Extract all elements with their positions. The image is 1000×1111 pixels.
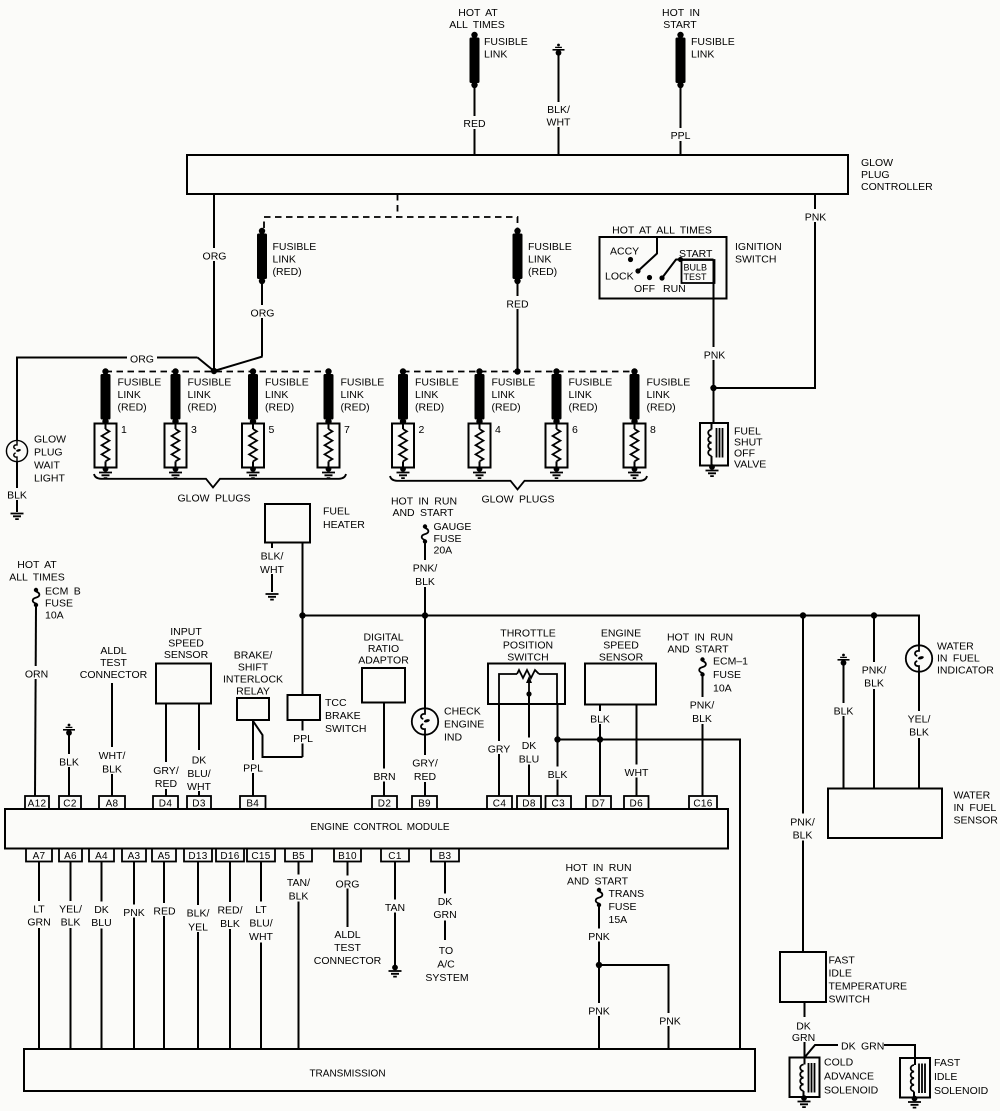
svg-text:SWITCH: SWITCH (507, 652, 548, 664)
wire ORG from controller down to glow plug bus junction (198, 194, 263, 371)
label ORG (vertical wire) (200, 248, 229, 263)
svg-text:HOT IN RUN: HOT IN RUN (565, 862, 631, 874)
pin C4 (ECM top) (487, 796, 512, 810)
svg-text:VALVE: VALVE (734, 459, 766, 471)
svg-text:BLU/: BLU/ (187, 768, 210, 780)
wire BLK/WHT from fuel heater to ground (271, 543, 273, 593)
label PNK/BLK (sensor) (857, 662, 891, 690)
svg-text:ENGINE: ENGINE (601, 628, 641, 640)
svg-text:INPUT: INPUT (170, 626, 202, 638)
label GRY (485, 741, 513, 756)
glow plug 6 box (546, 424, 568, 468)
svg-text:BLU: BLU (91, 917, 111, 929)
svg-text:PNK/: PNK/ (413, 563, 438, 575)
svg-text:LINK: LINK (273, 254, 296, 266)
label LT GRN (24, 901, 54, 929)
label CHECK ENGINE IND (444, 706, 484, 744)
svg-text:ORG: ORG (336, 879, 360, 891)
label PNK (left branch) (585, 1003, 613, 1018)
wire PNK/BLK from bus to fast idle temperature switch (802, 616, 804, 953)
svg-text:D7: D7 (592, 799, 606, 810)
water in fuel indicator lamp (906, 645, 932, 671)
node HOT IN RUN AND START (trans fuse) (565, 862, 631, 888)
label PNK/BLK (temp switch) (786, 814, 819, 842)
wire TAN/BLK B5 to transmission (298, 862, 300, 1050)
svg-text:BLK: BLK (590, 714, 610, 726)
label OFF (634, 283, 655, 295)
svg-text:WHT: WHT (187, 781, 211, 793)
svg-text:SYSTEM: SYSTEM (425, 972, 468, 984)
svg-text:PPL: PPL (671, 130, 691, 142)
node HOT IN RUN AND START (ECM-1) (667, 632, 733, 656)
svg-text:ORG: ORG (251, 308, 275, 320)
wire from fuel heater to bus and TCC brake switch (302, 543, 304, 696)
solenoid coil (fast idle) (911, 1058, 925, 1098)
pin D7 (ECM top) (586, 796, 611, 810)
pin C3 (ECM top) (546, 796, 572, 810)
wire GRY/RED from input speed sensor to D4 (165, 704, 167, 797)
svg-text:GRN: GRN (433, 909, 456, 921)
pin number 7 (344, 424, 350, 436)
wire DK GRN from B3 to A/C system (444, 862, 446, 941)
pin C15 (ECM bottom) (247, 849, 275, 863)
svg-text:PLUG: PLUG (861, 169, 890, 181)
dashed bus right glow plug group (403, 371, 635, 373)
svg-text:PNK/: PNK/ (690, 700, 715, 712)
glow plug 7 box (318, 424, 340, 468)
svg-text:B9: B9 (418, 799, 431, 810)
svg-text:DK: DK (522, 740, 537, 752)
svg-text:COLD: COLD (824, 1057, 854, 1069)
svg-text:GRY: GRY (488, 744, 511, 756)
svg-text:ADVANCE: ADVANCE (824, 1071, 874, 1083)
svg-text:B4: B4 (246, 799, 259, 810)
wire ORG from B10 to ALDL test connector (347, 862, 349, 928)
label RUN (663, 283, 686, 295)
glow plug 2 box (392, 424, 414, 468)
wire BLK from speed sensor to D7 (599, 705, 601, 797)
node HOT IN START (top feed) (662, 7, 700, 31)
label PNK (ignition output) (700, 347, 728, 362)
label IGNITION SWITCH (735, 241, 782, 266)
svg-text:AND START: AND START (567, 876, 629, 888)
svg-text:D13: D13 (188, 851, 207, 862)
svg-text:20A: 20A (434, 545, 453, 557)
svg-text:D4: D4 (159, 799, 173, 810)
glow plug controller U1 box (187, 155, 848, 194)
wire BLK to C2 (68, 734, 70, 797)
svg-text:D3: D3 (192, 799, 206, 810)
svg-text:TEMPERATURE: TEMPERATURE (829, 981, 908, 993)
label DK GRN (B3) (430, 894, 461, 922)
label FUSIBLE LINK (RED) plug 2 (415, 377, 459, 414)
pin D4 (ECM top) (153, 796, 178, 810)
label FUSIBLE LINK (RED) plug 8 (647, 377, 691, 414)
junction dot PNK (710, 385, 716, 391)
wire DK BLU A4 to transmission (101, 862, 103, 1050)
brace left glow plugs (94, 474, 346, 488)
svg-text:D6: D6 (630, 799, 644, 810)
svg-text:LINK: LINK (528, 254, 551, 266)
svg-text:B3: B3 (439, 851, 452, 862)
transmission box (24, 1049, 755, 1091)
svg-text:BLK: BLK (7, 490, 27, 502)
check engine indicator lamp (412, 708, 438, 734)
fusible link (RED) glow plug 5 (248, 368, 258, 424)
label FUSIBLE LINK (RED) plug 6 (569, 377, 613, 414)
svg-text:BLK: BLK (793, 830, 813, 842)
fast idle solenoid box (900, 1058, 930, 1098)
svg-text:GLOW PLUGS: GLOW PLUGS (177, 493, 250, 505)
label YEL/BLK (54, 901, 87, 929)
svg-text:ORG: ORG (203, 251, 227, 263)
svg-text:OFF: OFF (634, 283, 655, 295)
svg-text:HOT AT ALL TIMES: HOT AT ALL TIMES (612, 225, 712, 237)
label FAST IDLE TEMPERATURE SWITCH (829, 955, 908, 1006)
svg-text:LINK: LINK (691, 49, 714, 61)
switch lever (RUN to START rail) (662, 260, 676, 279)
svg-text:BRN: BRN (373, 771, 395, 783)
svg-text:TO: TO (439, 945, 453, 957)
label BLK (ESS) (586, 711, 614, 726)
contact dot RUN (659, 275, 664, 280)
svg-text:INTERLOCK: INTERLOCK (223, 674, 283, 686)
svg-text:WHT/: WHT/ (99, 750, 126, 762)
label ENGINE SPEED SENSOR (599, 628, 644, 664)
label FUSIBLE LINK (F2) (691, 36, 735, 61)
node HOT AT ALL TIMES (ignition) (612, 225, 712, 237)
svg-text:FUSIBLE: FUSIBLE (118, 377, 162, 389)
svg-text:SENSOR: SENSOR (954, 815, 999, 827)
contact dot ACCY (628, 257, 633, 262)
svg-text:A12: A12 (28, 799, 47, 810)
svg-text:DK GRN: DK GRN (841, 1041, 884, 1053)
label LT BLU/WHT (245, 902, 277, 944)
svg-text:GLOW: GLOW (861, 157, 893, 169)
svg-text:(RED): (RED) (118, 402, 147, 414)
ground (wait light) (11, 514, 24, 520)
svg-text:A3: A3 (128, 851, 141, 862)
svg-text:1: 1 (121, 424, 127, 436)
svg-text:BLK: BLK (909, 727, 929, 739)
svg-text:BLK: BLK (102, 764, 122, 776)
potentiometer (TPS) (499, 670, 557, 704)
ground (fast idle solenoid) (908, 1096, 921, 1108)
wire PNK from trans fuse (598, 907, 600, 1049)
digital ratio adaptor box (362, 668, 405, 703)
water in fuel sensor box (828, 789, 942, 839)
label WATER IN FUEL INDICATOR (937, 641, 994, 677)
svg-text:FUSIBLE: FUSIBLE (492, 377, 536, 389)
label PNK (A3) (120, 905, 148, 920)
svg-text:SENSOR: SENSOR (164, 649, 209, 661)
svg-text:LINK: LINK (265, 389, 288, 401)
svg-text:PNK: PNK (805, 212, 827, 224)
node HOT AT ALL TIMES (top feed) (449, 7, 505, 31)
label DK GRN (horizontal) (841, 1041, 884, 1053)
svg-text:BLU/: BLU/ (249, 918, 272, 930)
contact dot OFF (647, 275, 652, 280)
svg-text:A6: A6 (64, 851, 77, 862)
node TO A/C SYSTEM (425, 945, 468, 984)
svg-text:ORG: ORG (130, 354, 154, 366)
svg-text:IGNITION: IGNITION (735, 241, 782, 253)
svg-text:RED: RED (506, 299, 529, 311)
label PNK (controller output) (801, 209, 829, 224)
svg-text:(RED): (RED) (188, 402, 217, 414)
svg-text:PLUG: PLUG (34, 447, 63, 459)
label ACCY (610, 246, 639, 258)
svg-text:LINK: LINK (341, 389, 364, 401)
pin number 6 (572, 424, 578, 436)
switch lever (LOCK to feed) (638, 254, 657, 272)
svg-text:RED: RED (155, 778, 178, 790)
svg-text:FUSIBLE: FUSIBLE (273, 241, 317, 253)
svg-text:FUSIBLE: FUSIBLE (647, 377, 691, 389)
svg-text:WHT: WHT (625, 767, 649, 779)
wire PNK/BLK from bus to sensor (873, 616, 875, 789)
label RED (A5) (151, 903, 178, 918)
svg-text:HOT IN RUN: HOT IN RUN (391, 496, 457, 508)
svg-text:PNK: PNK (659, 1016, 681, 1028)
svg-text:FUSE: FUSE (609, 901, 637, 913)
svg-text:C2: C2 (63, 799, 77, 810)
label FUSIBLE LINK (RED) plug 4 (492, 377, 536, 414)
pin B9 (ECM top) (412, 796, 437, 810)
wire BLK/WHT to glow plug controller (558, 54, 560, 155)
wire GRY from TPS to C4 (498, 704, 500, 796)
dashed bus to mid fusible links (264, 217, 518, 228)
svg-text:ALL TIMES: ALL TIMES (449, 19, 505, 31)
wire YEL/BLK from indicator to sensor (918, 672, 920, 789)
svg-text:TAN/: TAN/ (287, 877, 310, 889)
svg-text:C3: C3 (552, 799, 566, 810)
svg-text:ENGINE: ENGINE (444, 719, 484, 731)
svg-text:FUSE: FUSE (434, 533, 462, 545)
svg-text:(RED): (RED) (273, 266, 302, 278)
svg-text:FUSE: FUSE (713, 669, 741, 681)
bus wire BLK to transmission (558, 740, 741, 1050)
svg-text:ECM B: ECM B (45, 586, 81, 598)
svg-text:PNK: PNK (588, 931, 610, 943)
pin number 1 (121, 424, 127, 436)
label ECM-1 FUSE 10A (713, 656, 748, 695)
svg-text:FUSE: FUSE (45, 598, 73, 610)
label THROTTLE POSITION SWITCH (500, 628, 555, 664)
pin A6 (ECM bottom) (59, 849, 82, 863)
pin D6 (ECM top) (624, 796, 649, 810)
engine speed sensor box (585, 664, 656, 705)
svg-text:AND START: AND START (667, 644, 729, 656)
ground (cold advance solenoid) (798, 1095, 811, 1107)
svg-text:GLOW PLUGS: GLOW PLUGS (481, 494, 554, 506)
svg-text:C15: C15 (251, 851, 270, 862)
svg-text:LINK: LINK (118, 389, 141, 401)
pin A5 (ECM bottom) (152, 849, 176, 863)
junction dot (fuel heater / TCC) (299, 612, 305, 618)
wire LT BLU/WHT C15 to transmission (260, 862, 262, 1050)
svg-text:BLK/: BLK/ (547, 104, 570, 116)
node ALDL TEST CONNECTOR (lower) (314, 929, 382, 967)
junction dot (ESS BLK) (597, 736, 603, 742)
label FUSIBLE LINK (F1) (484, 36, 528, 61)
svg-text:BRAKE: BRAKE (325, 710, 361, 722)
svg-text:POSITION: POSITION (503, 640, 553, 652)
svg-text:WHT: WHT (260, 564, 284, 576)
label ORN (21, 666, 51, 681)
label WHT/BLK (95, 747, 129, 776)
svg-text:AND START: AND START (392, 507, 454, 519)
pin C16 (ECM top) (689, 796, 717, 810)
label GAUGE FUSE 20A (434, 521, 472, 557)
svg-text:C4: C4 (493, 799, 507, 810)
pin D16 (ECM bottom) (216, 849, 244, 863)
svg-text:YEL/: YEL/ (59, 904, 82, 916)
label FUEL HEATER (323, 506, 365, 532)
svg-text:7: 7 (344, 424, 350, 436)
svg-text:(RED): (RED) (492, 402, 521, 414)
label YEL/BLK (903, 711, 936, 739)
svg-text:ENGINE CONTROL MODULE: ENGINE CONTROL MODULE (310, 822, 450, 833)
label WHT (D6) (621, 765, 652, 780)
svg-text:RUN: RUN (663, 283, 686, 295)
fusible link (RED) glow plug 4 (475, 368, 485, 424)
svg-text:CHECK: CHECK (444, 706, 481, 718)
label WATER IN FUEL SENSOR (954, 790, 999, 827)
wire PNK from ignition switch to fuel shut off valve (713, 260, 715, 424)
wire RED from F4 to right glow plug bus (517, 284, 519, 372)
svg-text:RELAY: RELAY (236, 686, 270, 698)
label DK BLU (514, 738, 544, 766)
svg-text:D2: D2 (378, 799, 392, 810)
TCC brake switch box (288, 695, 321, 720)
svg-text:START: START (663, 19, 697, 31)
svg-text:BRAKE/: BRAKE/ (234, 650, 273, 662)
solenoid coil (fuel shut off valve) (708, 424, 722, 467)
solenoid coil (cold advance) (800, 1058, 814, 1098)
pin A7 (ECM bottom) (26, 849, 52, 863)
svg-text:RED/: RED/ (217, 905, 242, 917)
svg-text:FUSIBLE: FUSIBLE (341, 377, 385, 389)
svg-text:SPEED: SPEED (603, 640, 639, 652)
fusible link (RED) glow plug 7 (324, 368, 334, 424)
svg-text:GAUGE: GAUGE (434, 521, 472, 533)
svg-text:WATER: WATER (937, 641, 974, 653)
svg-text:BLK/: BLK/ (261, 551, 284, 563)
svg-text:LIGHT: LIGHT (34, 473, 66, 485)
ground (C1) (389, 965, 402, 977)
pin A8 (ECM top) (99, 796, 125, 810)
svg-text:ACCY: ACCY (610, 246, 639, 258)
fuel shut off valve box (700, 423, 728, 466)
svg-text:BLK: BLK (220, 918, 240, 930)
svg-text:IN FUEL: IN FUEL (937, 653, 980, 665)
wire WHT from speed sensor to D6 (636, 705, 638, 797)
wire PNK/BLK from ECM-1 fuse to C16 (702, 677, 704, 797)
wire from bus to check engine indicator (424, 616, 426, 709)
svg-text:DK: DK (94, 904, 109, 916)
label TAN/BLK (282, 875, 315, 903)
svg-text:FUSIBLE: FUSIBLE (265, 377, 309, 389)
svg-text:GLOW: GLOW (34, 434, 66, 446)
wire RED/BLK D16 to transmission (229, 862, 231, 1050)
svg-text:PPL: PPL (293, 733, 313, 745)
resistor element glow plug 8 (628, 422, 641, 478)
svg-text:PNK: PNK (588, 1006, 610, 1018)
dashed wire from controller to fusible link bus (397, 194, 399, 217)
wire BLK/YEL D13 to transmission (197, 862, 199, 1050)
wire RED A5 to transmission (163, 862, 165, 1050)
resistor element glow plug 3 (169, 422, 182, 478)
label BLK/WHT (544, 102, 574, 129)
junction dot RED bus (514, 368, 520, 374)
pin D8 (ECM top) (517, 796, 541, 810)
wire PPL from TCC brake switch (302, 720, 304, 757)
svg-text:TRANSMISSION: TRANSMISSION (309, 1069, 385, 1080)
label GLOW PLUG CONTROLLER (861, 157, 933, 193)
svg-text:FUEL: FUEL (323, 506, 350, 518)
svg-text:BLK/: BLK/ (187, 908, 210, 920)
label DIGITAL RATIO ADAPTOR (358, 632, 409, 667)
wire PPL from relay to B4 (252, 720, 254, 796)
svg-text:IN FUEL: IN FUEL (954, 802, 997, 814)
svg-text:LINK: LINK (188, 389, 211, 401)
label BRN (370, 769, 399, 784)
pin number 8 (650, 424, 656, 436)
label PPL (B4) (240, 760, 266, 775)
svg-text:ALDL: ALDL (100, 645, 126, 657)
svg-text:FUSIBLE: FUSIBLE (569, 377, 613, 389)
dashed bus left glow plug group (106, 371, 329, 373)
wire WHT/BLK from ALDL to A8 (111, 683, 113, 796)
label DK GRN (vertical) (790, 1017, 819, 1044)
svg-text:(RED): (RED) (415, 402, 444, 414)
wire DK BLU/WHT from input speed sensor to D3 (198, 704, 200, 797)
svg-text:(RED): (RED) (265, 402, 294, 414)
label START (679, 248, 713, 260)
svg-text:FUSIBLE: FUSIBLE (484, 36, 528, 48)
glow plug 3 box (165, 424, 187, 468)
svg-text:BLU: BLU (519, 754, 539, 766)
svg-text:SPEED: SPEED (168, 638, 204, 650)
label ORG (F3 wire) (248, 305, 277, 320)
svg-text:IDLE: IDLE (829, 968, 852, 980)
fuse TRANS 15A (596, 888, 603, 907)
label FAST IDLE SOLENOID (934, 1057, 989, 1097)
svg-text:4: 4 (495, 424, 501, 436)
label PNK (trans fuse upper) (585, 929, 613, 944)
label ENGINE CONTROL MODULE (310, 822, 450, 833)
fusible link F3 (RED, left) (257, 228, 267, 284)
glow plug wait light lamp (6, 440, 27, 461)
svg-text:D8: D8 (522, 799, 536, 810)
svg-text:A5: A5 (158, 851, 171, 862)
wiper arm (TPS) (526, 676, 532, 697)
svg-text:TEST: TEST (334, 942, 361, 954)
resistor element glow plug 1 (99, 422, 112, 478)
wire TAN from C1 to ground (394, 862, 396, 967)
svg-text:HOT IN: HOT IN (662, 7, 700, 19)
svg-text:TAN: TAN (385, 902, 405, 914)
label INPUT SPEED SENSOR (164, 626, 209, 661)
label ECM B FUSE 10A (45, 586, 81, 622)
wire PNK branch to transmission (599, 965, 669, 1049)
resistor element glow plug 4 (473, 422, 486, 478)
pin B5 (ECM bottom) (285, 849, 312, 863)
svg-text:LT: LT (33, 904, 45, 916)
label RED/BLK (213, 902, 246, 930)
resistor element glow plug 6 (550, 422, 563, 478)
